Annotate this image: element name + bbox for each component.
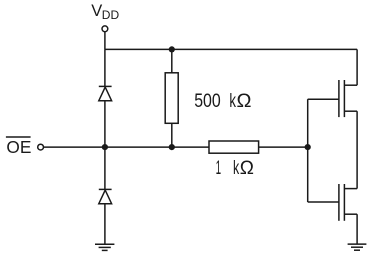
node: rail junction	[169, 46, 175, 52]
svg-text:OE: OE	[6, 137, 31, 157]
resistor R2 1k	[209, 141, 259, 153]
wire	[105, 48, 357, 50]
diode D1	[99, 86, 112, 100]
ground left	[95, 244, 114, 250]
node: gate junction	[305, 144, 311, 150]
wire	[104, 147, 106, 189]
svg-text:1kΩ: 1kΩ	[216, 158, 254, 179]
wire	[104, 49, 106, 86]
overline OE	[6, 136, 31, 138]
wire	[308, 201, 339, 203]
label VDD	[91, 2, 119, 22]
transistor Q1	[339, 80, 357, 117]
wire	[171, 123, 173, 147]
svg-text:V: V	[91, 2, 102, 20]
label OE	[6, 137, 31, 157]
ground right	[348, 244, 367, 250]
terminal OE	[38, 144, 44, 150]
wire	[356, 214, 358, 244]
svg-text:DD: DD	[102, 8, 120, 22]
node: OE/diode junction	[102, 144, 108, 150]
node: 500k bottom junction	[169, 144, 175, 150]
wire	[307, 99, 309, 202]
wire	[44, 146, 210, 148]
wire	[104, 32, 106, 50]
wire	[308, 98, 339, 100]
wire	[356, 49, 358, 85]
resistor R1 500k	[165, 73, 178, 124]
terminal VDD	[102, 26, 108, 32]
wire	[104, 101, 106, 147]
svg-text:500kΩ: 500kΩ	[194, 91, 251, 112]
diode D2	[99, 189, 112, 203]
transistor Q2	[339, 184, 357, 221]
wire	[104, 204, 106, 245]
wire	[171, 49, 173, 72]
wire	[356, 111, 358, 188]
wire	[259, 146, 308, 148]
